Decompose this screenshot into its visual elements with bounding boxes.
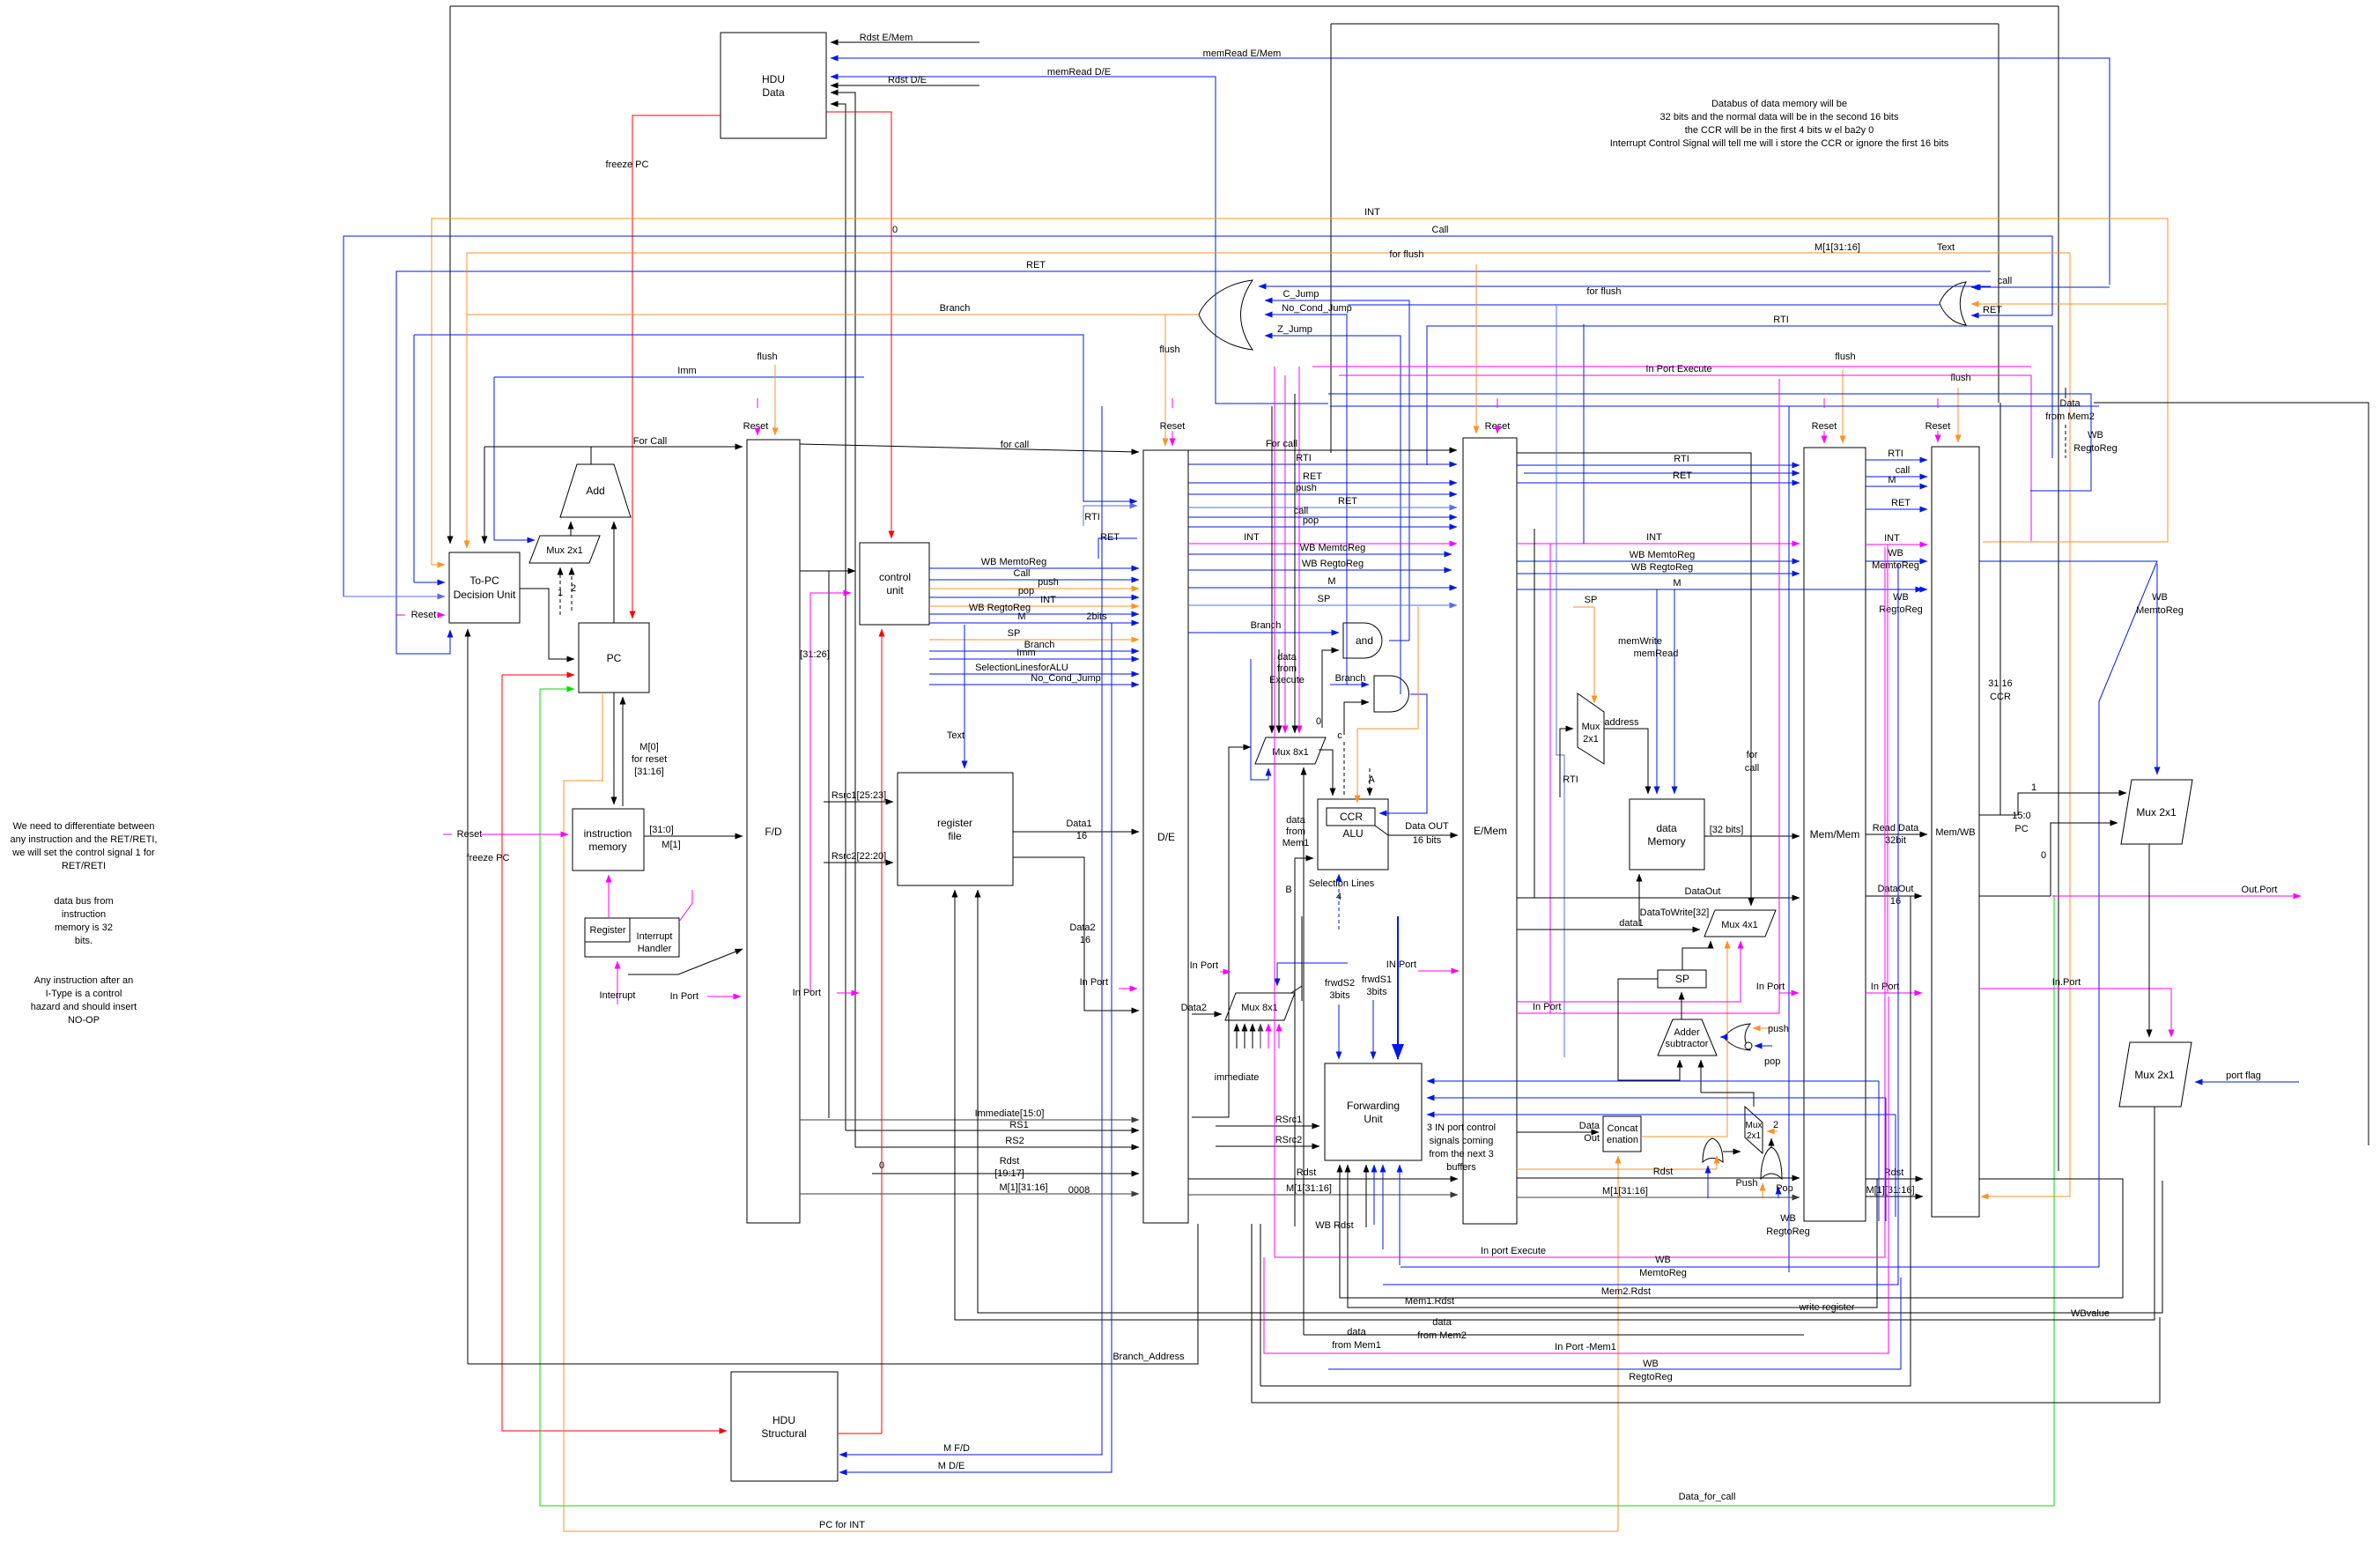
wire mux8a left in xyxy=(1192,747,1251,1117)
svg-text:WB MemtoReg: WB MemtoReg xyxy=(1630,550,1696,560)
wire FU right in 1 xyxy=(1427,1080,1879,1082)
wire Read Data xyxy=(1866,833,1927,835)
svg-text:Data: Data xyxy=(2059,398,2081,409)
svg-text:memory is 32: memory is 32 xyxy=(55,922,113,933)
svg-text:for flush: for flush xyxy=(1586,286,1621,297)
svg-text:RTI: RTI xyxy=(1296,453,1312,463)
wire Branch_Address xyxy=(468,1224,1198,1364)
wire DataOut to concat xyxy=(1517,1131,1599,1133)
wire INT MM-MWB xyxy=(1866,544,1927,545)
wire flush to EMem top xyxy=(1475,264,1477,433)
wire RTI EM-MM xyxy=(1517,464,1800,466)
svg-text:Data1: Data1 xyxy=(1066,819,1091,829)
wire MM-MWB RET xyxy=(1866,508,1927,510)
svg-text:Reset: Reset xyxy=(743,421,769,432)
block Forwarding Unit xyxy=(1325,1063,1422,1160)
svg-text:Mux 2x1: Mux 2x1 xyxy=(2136,806,2177,819)
svg-text:CCR: CCR xyxy=(1340,811,1363,823)
wire orange into To-PC left xyxy=(432,564,445,566)
svg-text:[31:0]: [31:0] xyxy=(649,825,674,835)
wire WB Rdst up xyxy=(1365,1165,1367,1227)
wire Reset arrow DE xyxy=(1172,431,1173,446)
svg-text:MemtoReg: MemtoReg xyxy=(2136,605,2184,616)
svg-text:Branch: Branch xyxy=(940,303,971,314)
wire In Port mux8b xyxy=(1220,971,1231,973)
wire black out MWB y1017 xyxy=(1979,895,2051,897)
block Mux 2x1 right xyxy=(2121,780,2192,844)
svg-text:from Mem1: from Mem1 xyxy=(1332,1340,1381,1351)
svg-text:HDU: HDU xyxy=(772,1414,795,1426)
wire RS2 xyxy=(855,1146,1139,1148)
wire 32 bits out xyxy=(1704,835,1800,837)
wire Data from Mem2 dash xyxy=(2065,388,2066,398)
wire C_Jump xyxy=(1265,300,1409,641)
svg-text:Branch: Branch xyxy=(1335,673,1366,684)
svg-text:frwdS1: frwdS1 xyxy=(1362,974,1392,985)
wire blue y1458 xyxy=(1383,564,1898,1285)
wire RET into right OR 2 xyxy=(1971,315,2052,316)
svg-text:To-PC: To-PC xyxy=(469,574,499,587)
wire inner frame vertical x2269 xyxy=(1998,24,1999,403)
wire blue thick FU xyxy=(1397,916,1399,1059)
svg-text:Push: Push xyxy=(1735,1178,1757,1189)
wire FU bottom b1 xyxy=(1373,1165,1375,1225)
svg-text:Selection Lines: Selection Lines xyxy=(1309,878,1375,889)
svg-text:we will set the control signal: we will set the control signal 1 for xyxy=(11,848,155,858)
svg-text:Text: Text xyxy=(1937,242,1955,253)
wire for flush blue xyxy=(1348,304,1940,306)
gate OR B xyxy=(1761,1147,1782,1179)
svg-text:hazard and should insert: hazard and should insert xyxy=(31,1002,137,1012)
svg-text:1: 1 xyxy=(2031,782,2036,793)
svg-text:In Port: In Port xyxy=(670,991,698,1002)
note RET/RETI xyxy=(11,821,158,871)
wire blue into To-PC left 1 xyxy=(414,582,445,583)
wire For Call to F/D xyxy=(484,446,743,448)
wire In port Execute h xyxy=(1275,547,1885,1257)
wire Imm down to mux8a xyxy=(1251,659,1268,780)
svg-text:Structural: Structural xyxy=(761,1427,806,1440)
wire M EM-MM xyxy=(1517,589,1923,590)
wire mux8b in m1 xyxy=(1268,1024,1269,1048)
svg-text:Adder: Adder xyxy=(1674,1027,1700,1038)
wire In Port up to mux4 xyxy=(1517,941,1741,1002)
wire push orange xyxy=(1753,1027,1772,1029)
svg-text:Branch_Address: Branch_Address xyxy=(1112,1352,1185,1362)
wire DE-EM RET 576 xyxy=(1188,507,1457,508)
wire IN Port EM xyxy=(1418,970,1459,972)
block Add adder xyxy=(560,464,631,517)
wire RTI feedback horizontal xyxy=(414,335,1137,501)
svg-text:instruction: instruction xyxy=(584,827,632,840)
wire green into PC xyxy=(540,688,574,690)
svg-text:Concat: Concat xyxy=(1608,1123,1638,1134)
svg-text:Imm: Imm xyxy=(1016,648,1035,658)
svg-text:Reset: Reset xyxy=(1812,421,1837,432)
wire mid EM-MM xyxy=(1524,472,1800,474)
svg-text:Data2: Data2 xyxy=(1069,922,1095,933)
wire green data for call xyxy=(540,689,2054,1506)
svg-text:buffers: buffers xyxy=(1446,1162,1476,1173)
svg-text:CCR: CCR xyxy=(1990,692,2011,702)
svg-text:Interrupt: Interrupt xyxy=(637,931,673,942)
wire 31:16 CCR vert xyxy=(1999,403,2001,815)
svg-text:A: A xyxy=(1368,774,1375,785)
svg-text:any instruction and the RET/RE: any instruction and the RET/RETI, xyxy=(11,834,158,845)
wire Reset arrow IM xyxy=(480,833,568,835)
wire SP EM xyxy=(1188,604,1457,606)
svg-text:for flush: for flush xyxy=(1389,249,1423,260)
wire frwdS2 vert xyxy=(1338,1004,1340,1059)
svg-text:port flag: port flag xyxy=(2226,1071,2261,1081)
svg-text:Reset: Reset xyxy=(411,610,437,620)
svg-text:In Port: In Port xyxy=(793,988,821,998)
wire write register xyxy=(978,890,2162,1313)
svg-text:RTI: RTI xyxy=(1888,448,1903,459)
wire memRead D/E xyxy=(831,77,1328,404)
svg-text:In port Execute: In port Execute xyxy=(1481,1246,1546,1256)
wire blue into To-PC bottom xyxy=(396,630,450,654)
wire Rdst 19:17 xyxy=(872,1173,1139,1174)
svg-text:MemtoReg: MemtoReg xyxy=(1639,1268,1687,1278)
svg-text:RET: RET xyxy=(1026,260,1046,270)
wire orpushpop to adder xyxy=(1720,1036,1724,1038)
wire memWrite vert xyxy=(1656,589,1658,794)
block Mux 4x1 xyxy=(1704,910,1776,937)
wire [31:26] vertical xyxy=(828,571,830,1118)
wire freeze PC red vertical xyxy=(502,675,727,1431)
svg-text:M: M xyxy=(1327,576,1335,587)
svg-text:M F/D: M F/D xyxy=(943,1443,970,1454)
svg-text:M: M xyxy=(1673,578,1681,589)
wire control Branch xyxy=(929,650,1139,652)
svg-text:WB: WB xyxy=(2088,430,2103,441)
wire [31:26] to control unit xyxy=(800,570,855,572)
wire DataOut up into memory xyxy=(1638,874,1640,925)
wire RET into right OR xyxy=(2051,271,2053,315)
wire M D/E xyxy=(839,623,1112,1472)
svg-text:SelectionLinesforALU: SelectionLinesforALU xyxy=(975,663,1068,673)
svg-text:Data2: Data2 xyxy=(1181,1003,1207,1013)
svg-text:16 bits: 16 bits xyxy=(1413,835,1442,846)
svg-text:[31:16]: [31:16] xyxy=(634,767,664,777)
wire FU bottom b3 xyxy=(1399,1165,1401,1265)
wire Data2 xyxy=(1013,857,1139,1011)
wire M1 EM-MM xyxy=(1517,1196,1800,1198)
block Register xyxy=(585,918,630,942)
wire INT EM-MM xyxy=(1517,543,1800,545)
wire FU vert 2141 xyxy=(1885,1098,1887,1221)
svg-text:M[1[31:16]: M[1[31:16] xyxy=(1286,1183,1332,1194)
wire To-PC top input black xyxy=(449,6,451,544)
svg-text:from: from xyxy=(1286,826,1305,837)
svg-text:RET: RET xyxy=(1891,498,1911,508)
svg-text:push: push xyxy=(1768,1024,1789,1034)
wire WB RegtoReg dash xyxy=(2065,425,2066,458)
wire Data OUT xyxy=(1388,834,1458,836)
svg-text:Mux: Mux xyxy=(1582,722,1600,732)
svg-text:signals coming: signals coming xyxy=(1430,1136,1494,1146)
wire In Port Execute top a xyxy=(1312,366,2031,367)
svg-text:PC for INT: PC for INT xyxy=(819,1520,865,1530)
wire orange into right OR xyxy=(1971,303,2167,305)
wire Data1 xyxy=(1013,831,1139,833)
wire data1 to mux4 xyxy=(1517,929,1700,930)
wire inner frame vertical x1511 xyxy=(1330,24,1332,453)
svg-text:ALU: ALU xyxy=(1342,827,1363,840)
label WB MemtoReg diag xyxy=(2136,592,2184,616)
wire mux8b in k4 xyxy=(1260,1024,1261,1048)
wire CCR diag out xyxy=(1375,826,1388,835)
svg-text:push: push xyxy=(1038,577,1059,588)
svg-text:call: call xyxy=(1998,276,2013,286)
svg-text:2x1: 2x1 xyxy=(1583,734,1599,745)
svg-text:WB MemtoReg: WB MemtoReg xyxy=(981,557,1047,567)
svg-text:16: 16 xyxy=(1080,935,1090,945)
wire c dashed to CCR xyxy=(1343,742,1345,797)
svg-text:16: 16 xyxy=(1076,831,1087,841)
wire Push orange xyxy=(1762,1183,1763,1198)
block CCR xyxy=(1327,808,1375,826)
svg-text:INT: INT xyxy=(1040,595,1056,605)
wire DE-EM call 587 xyxy=(1188,516,1457,518)
svg-text:0: 0 xyxy=(1316,716,1321,727)
wire mux8b in k3 xyxy=(1252,1024,1253,1048)
svg-text:C_Jump: C_Jump xyxy=(1283,289,1319,300)
svg-text:1: 1 xyxy=(558,588,563,598)
wire blue vert 1798 xyxy=(1583,324,1585,544)
svg-text:RTI: RTI xyxy=(1674,454,1689,464)
wire ORB out up xyxy=(1770,1138,1772,1147)
svg-text:from Mem2: from Mem2 xyxy=(2045,411,2095,422)
wire RSrc1 xyxy=(1216,1125,1319,1127)
label data from Execute xyxy=(1269,652,1305,685)
wire inner frame horizontal y27 xyxy=(1331,23,1999,25)
wire adder to SP xyxy=(1681,992,1682,1019)
svg-text:M D/E: M D/E xyxy=(938,1461,965,1471)
wire RET elbow DE xyxy=(1098,538,1137,559)
wire control push xyxy=(929,588,1139,589)
svg-text:M[1[31:16]: M[1[31:16] xyxy=(1602,1186,1648,1196)
svg-text:RTI: RTI xyxy=(1773,315,1789,325)
svg-text:INT: INT xyxy=(1884,533,1900,544)
svg-text:PC: PC xyxy=(2014,824,2028,834)
wire blue corner 2374 xyxy=(1979,394,2091,491)
svg-text:call: call xyxy=(1745,763,1760,774)
svg-text:frwdS2: frwdS2 xyxy=(1325,978,1355,989)
wire mux8b in k2 xyxy=(1244,1024,1245,1048)
wire OR input top blue xyxy=(1259,285,1991,287)
wire In Port Execute top b xyxy=(1339,375,2031,541)
wire In Port MWB xyxy=(1866,992,1922,994)
svg-text:memWrite: memWrite xyxy=(1618,636,1662,647)
wire 0 into mux xyxy=(2051,823,2118,896)
svg-text:call: call xyxy=(1896,465,1911,476)
svg-text:NO-OP: NO-OP xyxy=(68,1015,100,1026)
wire WB MemtoReg diag xyxy=(1979,561,2157,1267)
svg-text:RegtoReg: RegtoReg xyxy=(1629,1372,1673,1382)
svg-text:subtractor: subtractor xyxy=(1666,1039,1709,1049)
wire Reset stub MM xyxy=(1823,398,1825,408)
wire frwdS1 vert xyxy=(1372,1000,1374,1059)
svg-text:INT: INT xyxy=(1244,532,1260,543)
block ALU xyxy=(1318,799,1388,870)
svg-text:M[0]: M[0] xyxy=(639,742,658,752)
wire WB MemtoReg EM xyxy=(1188,553,1452,555)
wire M1 DE-EM xyxy=(1188,1194,1458,1196)
svg-text:2bits: 2bits xyxy=(1086,611,1107,622)
svg-text:Add: Add xyxy=(586,485,604,497)
svg-text:Mux: Mux xyxy=(1746,1121,1763,1130)
svg-text:INT: INT xyxy=(1364,207,1380,218)
wire control SelectionLinesforALU xyxy=(929,673,1139,675)
wire FU right in 3 xyxy=(1427,1114,1896,1115)
wire Reset stub DE xyxy=(1172,398,1173,408)
wire IH to F/D black diag xyxy=(628,949,743,974)
label 15:0 PC xyxy=(2012,811,2030,834)
svg-text:F/D: F/D xyxy=(765,826,782,838)
wire IH to IM magenta xyxy=(608,875,610,918)
svg-text:WB: WB xyxy=(2152,592,2168,603)
wire Reset arrow To-PC xyxy=(437,614,445,616)
svg-text:data bus from: data bus from xyxy=(54,896,113,907)
svg-text:Rdst: Rdst xyxy=(1000,1156,1020,1167)
svg-text:Reset: Reset xyxy=(457,829,483,840)
wire frame right vertical xyxy=(2058,6,2059,1171)
svg-text:Out: Out xyxy=(1584,1133,1600,1144)
wire 2 orange sel xyxy=(1767,1130,1778,1132)
wire ORA out to small mux xyxy=(1723,1151,1741,1152)
svg-text:In.Port: In.Port xyxy=(2052,977,2081,988)
wire Reset stub MWB xyxy=(1937,398,1939,408)
wire control INT xyxy=(929,605,1139,607)
wire orange into To-PC top xyxy=(466,253,468,548)
svg-text:I-Type is a control: I-Type is a control xyxy=(46,989,122,999)
wire RTI elbow DE xyxy=(1083,506,1137,526)
block PC xyxy=(579,623,649,693)
svg-text:Z_Jump: Z_Jump xyxy=(1277,324,1312,335)
block instruction memory xyxy=(573,809,644,871)
svg-text:Rdst: Rdst xyxy=(1297,1167,1317,1178)
label data from Mem1 b xyxy=(1332,1327,1381,1351)
wire MM-MWB call xyxy=(1866,476,1927,478)
svg-text:32 bits and the normal data wi: 32 bits and the normal data will be in t… xyxy=(1660,112,1899,122)
svg-text:WB RegtoReg: WB RegtoReg xyxy=(1631,562,1693,573)
svg-text:RET: RET xyxy=(1983,305,2002,315)
wire and2 out to CCR xyxy=(1379,694,1427,813)
svg-text:RET: RET xyxy=(1673,470,1692,481)
svg-text:Call: Call xyxy=(1432,225,1449,235)
wire RET bus blue xyxy=(396,271,1991,654)
svg-text:Mem/Mem: Mem/Mem xyxy=(1810,828,1860,841)
svg-text:Reset: Reset xyxy=(1485,421,1511,432)
wire RS1 xyxy=(846,1130,1139,1131)
wire Branch_Address up to To-PC xyxy=(467,629,469,1364)
wire WB RegtoReg EM xyxy=(1188,569,1452,571)
svg-text:address: address xyxy=(1604,717,1639,728)
wire black y1583 xyxy=(1252,1317,2160,1403)
svg-text:0: 0 xyxy=(2041,850,2046,861)
svg-text:freeze PC: freeze PC xyxy=(606,159,649,170)
svg-text:RegtoReg: RegtoReg xyxy=(1879,604,1923,615)
svg-text:RTI: RTI xyxy=(1084,512,1100,522)
wire Reset arrow MWB xyxy=(1937,431,1939,442)
gate AND 2 xyxy=(1374,676,1409,712)
block F/D xyxy=(747,440,800,1223)
svg-text:32bit: 32bit xyxy=(1885,835,1906,846)
wire black vert 1742 xyxy=(1534,529,1535,898)
block Concatenation xyxy=(1603,1116,1641,1152)
block HDU Structural xyxy=(731,1372,838,1481)
wire orange y1327 xyxy=(1517,1168,1717,1170)
wire WB RegtoReg EM-MM xyxy=(1517,573,1800,574)
svg-text:IN Port: IN Port xyxy=(1386,959,1416,970)
block E/Mem xyxy=(1463,438,1517,1224)
wire M1 MM-MWB xyxy=(1866,1196,1923,1197)
wire Interrupt magenta xyxy=(617,961,618,1004)
wire Rdst EM-MM xyxy=(1517,1177,1800,1179)
svg-text:Rdst D/E: Rdst D/E xyxy=(888,75,927,85)
svg-text:control: control xyxy=(879,571,911,583)
label data from Mem2 b xyxy=(1417,1317,1467,1341)
wire mux sel 2 xyxy=(571,567,573,611)
label M[0] for reset xyxy=(632,742,667,777)
wire Reset arrow FD xyxy=(757,431,758,435)
note 3 IN port xyxy=(1427,1122,1496,1173)
svg-text:0008: 0008 xyxy=(1068,1185,1090,1196)
note I-Type hazard xyxy=(31,975,137,1026)
label WB RegtoReg r xyxy=(2073,430,2118,454)
wire DE-EM push 561 xyxy=(1188,493,1457,495)
label WB RegtoReg MMb xyxy=(1766,1213,1810,1237)
svg-text:for reset: for reset xyxy=(632,754,667,765)
wire Mux to Add xyxy=(570,522,572,536)
svg-text:M[1[31:16]: M[1[31:16] xyxy=(1815,242,1860,253)
wire blue WB RegtoReg bottom xyxy=(1328,1278,1901,1369)
svg-text:Databus of data memory will be: Databus of data memory will be xyxy=(1711,99,1847,109)
wire Immediate bus xyxy=(800,1119,1139,1121)
svg-text:For call: For call xyxy=(1266,439,1297,449)
wire orange into ORA xyxy=(1716,1156,1718,1169)
wire Reset arrow EM xyxy=(1497,431,1498,433)
gate OR right xyxy=(1940,282,1966,325)
svg-text:2: 2 xyxy=(571,583,576,594)
wire mux8b out up xyxy=(1301,916,1303,1001)
wire mux8a in k2 xyxy=(1278,649,1280,733)
wire control Call xyxy=(929,579,1139,581)
wire mux8b in k1 xyxy=(1236,1024,1238,1048)
wire SP to mux4 xyxy=(1682,941,1711,970)
wire WB MemtoReg EM-MM xyxy=(1517,560,1800,562)
svg-text:No_Cond_Jump: No_Cond_Jump xyxy=(1282,303,1352,314)
svg-text:Mem2.Rdst: Mem2.Rdst xyxy=(1601,1286,1651,1297)
wire For Call branch to To-PC xyxy=(484,447,485,544)
wire blue y1444 xyxy=(1401,1266,2099,1268)
svg-text:Interrupt: Interrupt xyxy=(600,990,636,1001)
wire In Port to F/D xyxy=(707,996,741,997)
svg-text:c: c xyxy=(1337,730,1342,741)
wire RET EM-MM xyxy=(1517,482,1800,484)
svg-text:M: M xyxy=(1017,611,1025,622)
block Adder subtractor xyxy=(1658,1019,1717,1056)
svg-text:from Mem2: from Mem2 xyxy=(1417,1330,1467,1341)
svg-text:WB RegtoReg: WB RegtoReg xyxy=(1302,559,1364,569)
block Mux 8x1 b xyxy=(1225,993,1295,1020)
wire Imm to mux xyxy=(494,377,535,540)
wire blue y447 xyxy=(1328,393,2091,395)
wire INT bus orange xyxy=(432,219,2168,565)
svg-text:Interrupt Control Signal will: Interrupt Control Signal will tell me wi… xyxy=(1610,138,1949,149)
